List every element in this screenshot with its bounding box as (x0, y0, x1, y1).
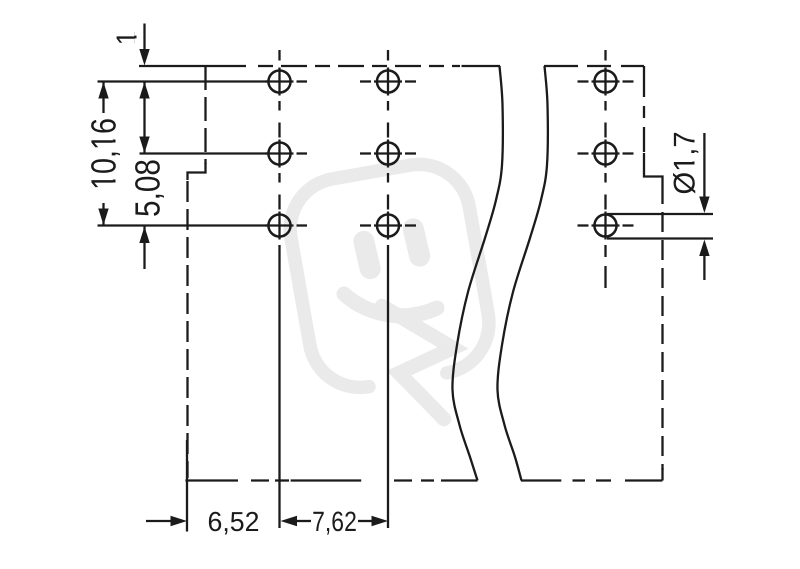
watermark plug prongs (eyes) (351, 216, 432, 281)
diameter extension line top tangent (607, 213, 713, 215)
hole pad col3 row1 (592, 68, 620, 96)
break line right (S-curve) (497, 66, 547, 481)
part outline bottom edge middle solid (291, 479, 362, 481)
part outline bottom edge left (185, 479, 238, 481)
hole pad col1 row2 (266, 140, 294, 168)
horizontal center line row2 (297, 152, 634, 154)
horizontal center line row1 (297, 80, 634, 82)
vertical center line col2 (387, 50, 389, 528)
dimension 1 upper arrow (139, 24, 149, 66)
svg-text:Ø1,7: Ø1,7 (669, 131, 702, 194)
part outline bottom edge dashes (251, 479, 269, 481)
svg-text:5,08: 5,08 (129, 159, 168, 217)
part outline top edge solid before break (462, 65, 501, 67)
bottom dimension line 6,52 left arrow (146, 516, 187, 526)
hidden edge right lower vertical (661, 184, 663, 470)
extension line row1 left (98, 80, 268, 82)
diameter dimension lower arrow (699, 240, 709, 281)
break line left (S-curve) (452, 66, 502, 481)
part outline bottom edge right of break (521, 479, 561, 481)
hole pad col1 row3 (266, 212, 294, 240)
hidden edge left vertical (204, 66, 206, 164)
svg-text:7,62: 7,62 (312, 506, 357, 537)
extension line row2 left (140, 152, 268, 154)
bottom dimension 7,62 left arrow (281, 516, 312, 526)
watermark smile (cable arc) (344, 294, 437, 316)
hidden edge right step corner (644, 153, 663, 184)
svg-text:10,16: 10,16 (85, 118, 124, 190)
extension line row3 left (98, 224, 268, 226)
part outline top edge right of break (544, 65, 578, 67)
dimension 1 / 5,08 shared arrows between row1 and row2 (139, 82, 149, 153)
watermark lightning flash (382, 306, 453, 419)
horizontal center line row3 (297, 224, 634, 226)
hole pad col2 row2 (374, 140, 402, 168)
dimension 5,08 lower arrow below row3 (139, 227, 149, 270)
dimension 10,16 line with arrows (98, 82, 108, 225)
hole pad col2 row3 (374, 212, 402, 240)
hidden edge left step corner (188, 163, 206, 180)
part outline bottom edge to break (441, 479, 478, 481)
vertical center line col3 (604, 50, 606, 288)
svg-text:6,52: 6,52 (208, 506, 260, 537)
hole pad col3 row2 (592, 140, 620, 168)
bottom right corner vertical (661, 468, 663, 481)
watermark logo (light gray smiley-plug in rounded square) (282, 156, 497, 395)
hole pad col2 row1 (374, 68, 402, 96)
hole pad col1 row1 (266, 68, 294, 96)
bottom dimension 7,62 right arrow (358, 516, 388, 526)
vertical center line col1 (278, 50, 280, 528)
svg-text:1: 1 (112, 31, 144, 46)
diameter dimension upper arrow (699, 133, 709, 213)
part outline top edge (visible) (139, 65, 246, 67)
diameter extension line bottom tangent (607, 237, 713, 239)
part outline top edge hidden (dashed) (258, 65, 460, 67)
hidden edge right vertical (643, 66, 645, 152)
bottom dimension extension line left edge (186, 440, 188, 532)
hole pad col3 row3 (592, 212, 620, 240)
hidden edge left lower vertical (186, 181, 188, 478)
